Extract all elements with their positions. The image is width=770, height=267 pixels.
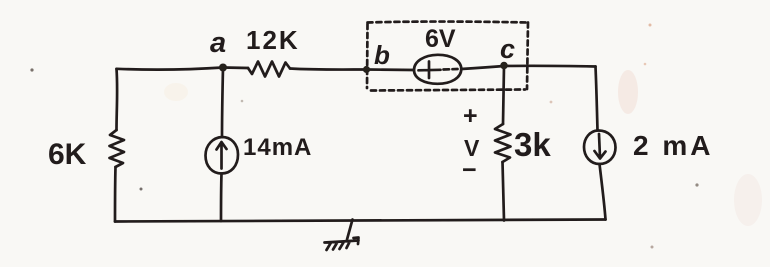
svg-text:2 mA: 2 mA bbox=[633, 130, 713, 161]
wire node a vertical upper bbox=[222, 68, 223, 138]
svg-text:b: b bbox=[374, 40, 390, 70]
svg-text:a: a bbox=[210, 27, 226, 59]
wire resistor to node b bbox=[290, 69, 367, 70]
svg-text:3k: 3k bbox=[514, 126, 551, 163]
resistor R 3k bbox=[495, 124, 511, 162]
arrow up inside I1 bbox=[217, 142, 227, 169]
voltage source V1 6V ellipse bbox=[414, 55, 461, 84]
ground stub bbox=[347, 220, 353, 240]
wire source to node c bbox=[461, 66, 504, 69]
svg-text:6K: 6K bbox=[48, 138, 87, 171]
dashed box left edge bbox=[366, 24, 369, 88]
wire node b to source bbox=[367, 68, 415, 71]
wire node c vertical upper bbox=[503, 66, 504, 124]
wire node c to right corner bbox=[504, 64, 596, 67]
dashed box bottom edge bbox=[371, 90, 525, 91]
wire left vertical lower bbox=[114, 167, 117, 222]
dashed box right edge bbox=[527, 23, 528, 90]
current source I1 14mA circle bbox=[206, 137, 239, 174]
svg-text:c: c bbox=[500, 34, 515, 64]
ground hatching bbox=[325, 238, 359, 251]
plus sign inside V1 bbox=[419, 62, 441, 79]
node b junction dot bbox=[363, 66, 370, 73]
svg-text:−: − bbox=[462, 156, 477, 184]
svg-text:12K: 12K bbox=[246, 25, 300, 55]
faint paper smudges bbox=[618, 70, 638, 114]
wire node a vertical lower bbox=[220, 174, 223, 222]
paper specks bbox=[30, 68, 33, 71]
dashed box around V1 top edge bbox=[368, 20, 529, 24]
wire top-left horizontal bbox=[117, 68, 224, 70]
wire left vertical bbox=[115, 69, 118, 130]
wire node c vertical lower bbox=[503, 162, 505, 221]
node c junction dot bbox=[500, 62, 508, 70]
wire bottom horizontal bbox=[115, 220, 606, 222]
svg-text:6V: 6V bbox=[425, 25, 456, 53]
wire right vertical lower bbox=[600, 164, 606, 220]
resistor R 6K bbox=[110, 130, 125, 167]
svg-text:14mA: 14mA bbox=[243, 134, 312, 161]
current source I2 2mA circle bbox=[584, 130, 616, 164]
wire node a to resistor bbox=[223, 66, 248, 69]
arrow down inside I2 bbox=[595, 134, 606, 159]
node a junction dot bbox=[219, 64, 227, 72]
resistor R 12K bbox=[248, 62, 290, 77]
svg-text:+: + bbox=[463, 102, 478, 130]
wire right vertical upper bbox=[596, 67, 598, 131]
minus dashes inside V1 bbox=[444, 68, 458, 71]
